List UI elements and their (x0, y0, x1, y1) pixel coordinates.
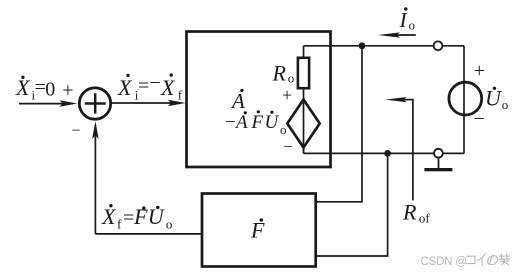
Rof measurement arrow (398, 100, 413, 201)
wire summing junction to amplifier box (111, 102, 179, 104)
svg-text:+: + (474, 60, 485, 82)
svg-text:A: A (230, 89, 245, 113)
F box bottom-right wire to bottom node (316, 153, 388, 256)
svg-text:=: = (35, 77, 46, 99)
svg-text:+: + (62, 79, 73, 101)
svg-text:X: X (117, 75, 133, 100)
label Io current (399, 7, 416, 32)
internal vertical wire (Ro / source branch) (303, 46, 305, 154)
svg-text:X: X (160, 75, 176, 100)
label Xi = -Xf (117, 72, 183, 103)
label A inside box (230, 89, 245, 113)
svg-text:A: A (234, 112, 248, 133)
svg-text:F: F (250, 217, 265, 242)
ground (438, 158, 440, 169)
svg-text:o: o (166, 217, 173, 232)
svg-text:F: F (133, 204, 148, 229)
svg-text:X: X (101, 204, 117, 229)
label Uo source (485, 86, 508, 113)
controlled source diamond -AFUo (287, 100, 319, 148)
F box top-right wire to top node (316, 46, 362, 202)
feedback box F (202, 194, 316, 267)
svg-text:o: o (288, 71, 295, 86)
label -AFUo inside box (225, 110, 287, 137)
plus sign inside summing junction (85, 93, 106, 113)
svg-text:−: − (149, 72, 160, 94)
label Xf=FUo (101, 204, 172, 232)
svg-text:F: F (251, 112, 264, 133)
svg-text:=: = (138, 75, 149, 97)
svg-text:−: − (225, 112, 236, 133)
svg-text:−: − (71, 122, 80, 139)
junction dot top node (359, 42, 366, 49)
svg-text:R: R (272, 60, 287, 85)
svg-text:R: R (402, 199, 417, 224)
feedback horizontal wire to F box (95, 233, 202, 235)
arrowhead into amplifier box (168, 100, 186, 106)
label Rof (402, 199, 430, 225)
summing junction circle (79, 88, 110, 119)
label Ro (272, 60, 295, 85)
wire input to summing junction (19, 103, 66, 105)
svg-text:CSDN @: CSDN @ (421, 256, 467, 268)
svg-text:=: = (123, 207, 134, 229)
svg-text:o: o (502, 97, 509, 112)
svg-text:of: of (419, 211, 431, 226)
svg-text:U: U (265, 112, 280, 133)
svg-text:−: − (474, 108, 485, 130)
current Io arrow (394, 34, 416, 36)
svg-text:I: I (399, 8, 408, 32)
junction dot bottom node (384, 150, 391, 157)
resistor Ro (298, 58, 309, 88)
terminal circle top (434, 41, 443, 50)
svg-text:o: o (409, 17, 416, 32)
label F inside feedback box (250, 217, 265, 242)
feedback vertical wire with up arrow into summing junction (94, 128, 96, 234)
svg-text:f: f (178, 88, 183, 103)
right rail down to source (463, 46, 465, 154)
bottom output wire (303, 148, 305, 154)
svg-text:−: − (283, 137, 293, 156)
svg-text:+: + (282, 85, 292, 105)
arrowhead into summing junction (60, 100, 78, 106)
svg-text:0: 0 (45, 78, 55, 100)
top output wire (304, 45, 465, 47)
svg-text:f: f (117, 216, 122, 231)
amplifier box A (187, 32, 331, 168)
label Xi=0 (15, 75, 55, 102)
svg-text:o: o (280, 122, 287, 137)
voltage source Uo circle (449, 82, 482, 115)
terminal circle bottom (434, 149, 443, 158)
watermark kana (drawn) (466, 253, 510, 265)
